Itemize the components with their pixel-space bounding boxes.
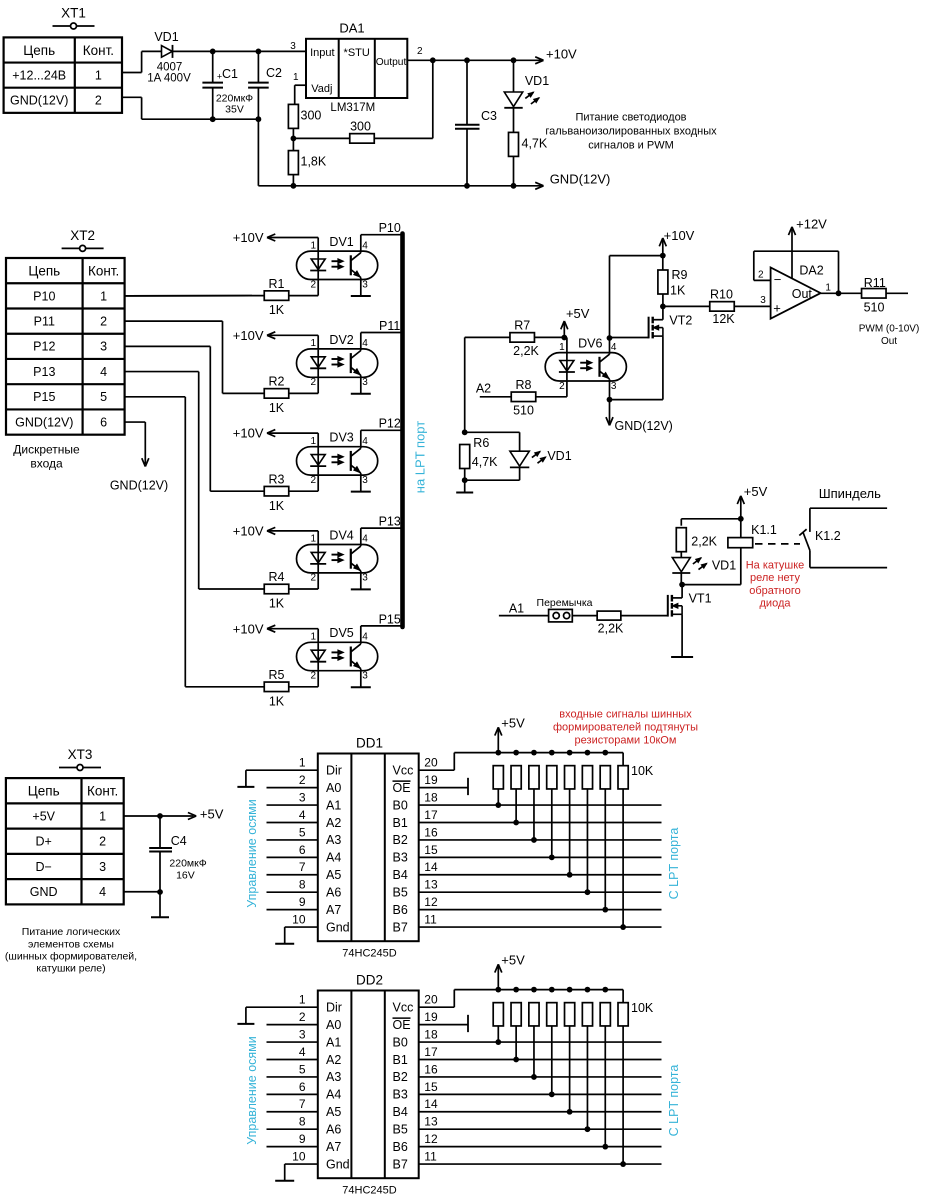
svg-text:*STU: *STU xyxy=(344,47,370,59)
svg-text:элементов схемы: элементов схемы xyxy=(28,938,114,950)
svg-text:17: 17 xyxy=(424,1045,438,1059)
svg-text:3: 3 xyxy=(290,41,296,52)
svg-text:+5V: +5V xyxy=(32,809,55,823)
svg-text:B3: B3 xyxy=(393,851,408,865)
svg-text:R10: R10 xyxy=(710,288,733,302)
svg-text:PWM (0-10V): PWM (0-10V) xyxy=(859,323,920,334)
svg-text:14: 14 xyxy=(424,1097,438,1111)
svg-text:9: 9 xyxy=(299,1132,306,1146)
svg-text:20: 20 xyxy=(424,756,438,770)
svg-text:B6: B6 xyxy=(393,1140,408,1154)
svg-text:OE: OE xyxy=(393,781,411,795)
svg-text:2: 2 xyxy=(758,269,764,280)
svg-text:+10V: +10V xyxy=(233,328,264,343)
svg-text:D−: D− xyxy=(36,860,52,874)
svg-text:2: 2 xyxy=(417,46,423,57)
svg-text:гальваноизолированных входных: гальваноизолированных входных xyxy=(545,126,717,138)
svg-text:A3: A3 xyxy=(326,833,341,847)
svg-text:5: 5 xyxy=(299,825,306,839)
svg-text:1A 400V: 1A 400V xyxy=(147,73,191,85)
svg-text:Дискретные: Дискретные xyxy=(13,443,80,457)
svg-text:A5: A5 xyxy=(326,1105,341,1119)
svg-text:4,7K: 4,7K xyxy=(522,136,548,150)
svg-text:Dir: Dir xyxy=(326,1001,342,1015)
svg-text:2: 2 xyxy=(299,1010,306,1024)
svg-text:2: 2 xyxy=(310,475,316,486)
svg-text:Питание логических: Питание логических xyxy=(22,926,121,938)
svg-text:B5: B5 xyxy=(393,886,408,900)
svg-text:A0: A0 xyxy=(326,1018,341,1032)
svg-text:1: 1 xyxy=(299,756,306,770)
svg-text:6: 6 xyxy=(100,415,107,429)
svg-text:12K: 12K xyxy=(712,312,735,326)
svg-text:P15: P15 xyxy=(33,390,55,404)
svg-text:Out: Out xyxy=(792,287,813,301)
svg-text:16: 16 xyxy=(424,825,438,839)
svg-text:A1: A1 xyxy=(326,1035,341,1049)
svg-text:Конт.: Конт. xyxy=(88,263,119,278)
svg-text:катушки реле): катушки реле) xyxy=(36,963,105,975)
svg-text:20: 20 xyxy=(424,993,438,1007)
svg-text:510: 510 xyxy=(864,301,885,315)
svg-text:74HC245D: 74HC245D xyxy=(342,1185,396,1197)
svg-text:+10V: +10V xyxy=(546,47,577,62)
svg-text:10: 10 xyxy=(292,1149,306,1163)
svg-text:P10: P10 xyxy=(33,289,55,303)
svg-text:15: 15 xyxy=(424,1080,438,1094)
svg-text:B3: B3 xyxy=(393,1088,408,1102)
svg-text:300: 300 xyxy=(301,108,322,122)
svg-text:Управление осями: Управление осями xyxy=(245,1036,259,1145)
svg-text:на LPT порт: на LPT порт xyxy=(413,421,428,493)
svg-text:2,2K: 2,2K xyxy=(513,344,539,358)
svg-text:VD1: VD1 xyxy=(547,449,571,463)
svg-text:GND(12V): GND(12V) xyxy=(15,415,73,429)
svg-text:Out: Out xyxy=(881,336,897,347)
svg-text:3: 3 xyxy=(760,295,766,306)
svg-text:R7: R7 xyxy=(514,318,530,332)
svg-text:+10V: +10V xyxy=(664,228,695,243)
svg-text:3: 3 xyxy=(299,790,306,804)
svg-text:DA1: DA1 xyxy=(339,20,364,35)
svg-text:2: 2 xyxy=(95,94,102,108)
svg-text:входные сигналы шинных: входные сигналы шинных xyxy=(559,708,692,720)
svg-text:1: 1 xyxy=(559,342,565,353)
svg-text:C3: C3 xyxy=(481,109,497,123)
svg-text:VD1: VD1 xyxy=(525,74,549,88)
svg-text:1: 1 xyxy=(299,993,306,1007)
svg-text:4: 4 xyxy=(299,1045,306,1059)
svg-text:4: 4 xyxy=(362,240,368,251)
svg-text:3: 3 xyxy=(299,1027,306,1041)
svg-text:XT1: XT1 xyxy=(61,6,86,21)
svg-text:+5V: +5V xyxy=(501,952,525,967)
svg-text:B7: B7 xyxy=(393,1157,408,1171)
svg-text:A4: A4 xyxy=(326,851,341,865)
svg-text:10K: 10K xyxy=(631,764,654,778)
svg-text:LM317M: LM317M xyxy=(330,102,375,114)
svg-text:Vadj: Vadj xyxy=(311,83,332,95)
svg-text:B2: B2 xyxy=(393,1070,408,1084)
svg-text:2: 2 xyxy=(310,671,316,682)
svg-text:R11: R11 xyxy=(864,276,886,290)
svg-text:1: 1 xyxy=(825,282,831,293)
svg-text:K1.1: K1.1 xyxy=(751,523,777,537)
svg-text:1,8K: 1,8K xyxy=(301,155,327,169)
svg-text:Gnd: Gnd xyxy=(326,920,350,934)
svg-text:1K: 1K xyxy=(670,284,686,298)
svg-text:−: − xyxy=(774,272,782,287)
svg-text:19: 19 xyxy=(424,1010,438,1024)
svg-text:R2: R2 xyxy=(269,375,285,389)
svg-text:220мкФ: 220мкФ xyxy=(169,857,206,869)
svg-text:4: 4 xyxy=(99,885,106,899)
svg-text:4: 4 xyxy=(299,808,306,822)
svg-text:1K: 1K xyxy=(269,597,285,611)
svg-text:Питание светодиодов: Питание светодиодов xyxy=(575,112,686,124)
svg-text:16V: 16V xyxy=(176,870,195,882)
svg-text:5: 5 xyxy=(100,390,107,404)
svg-text:1: 1 xyxy=(310,338,316,349)
svg-text:DV6: DV6 xyxy=(578,337,602,351)
svg-text:1: 1 xyxy=(310,240,316,251)
svg-text:C1: C1 xyxy=(222,67,238,81)
svg-text:+12V: +12V xyxy=(796,217,827,232)
svg-text:4: 4 xyxy=(611,342,617,353)
svg-text:16: 16 xyxy=(424,1062,438,1076)
svg-text:2: 2 xyxy=(100,315,107,329)
svg-text:8: 8 xyxy=(299,878,306,892)
svg-text:Vcc: Vcc xyxy=(393,1001,414,1015)
svg-text:+10V: +10V xyxy=(233,524,264,539)
svg-text:2: 2 xyxy=(310,377,316,388)
svg-text:2: 2 xyxy=(299,773,306,787)
svg-text:Шпиндель: Шпиндель xyxy=(819,486,881,501)
svg-text:P12: P12 xyxy=(379,417,401,431)
svg-text:R5: R5 xyxy=(269,668,285,682)
svg-text:P11: P11 xyxy=(34,315,55,329)
svg-text:300: 300 xyxy=(350,119,371,133)
svg-text:18: 18 xyxy=(424,1027,438,1041)
svg-text:VD1: VD1 xyxy=(712,559,736,573)
svg-text:Конт.: Конт. xyxy=(83,43,114,58)
svg-text:A2: A2 xyxy=(326,1053,341,1067)
svg-text:2,2K: 2,2K xyxy=(598,622,624,636)
svg-text:3: 3 xyxy=(362,475,368,486)
svg-text:4007: 4007 xyxy=(157,61,183,73)
svg-text:входа: входа xyxy=(30,457,63,471)
svg-text:11: 11 xyxy=(424,1149,437,1163)
svg-text:На катушке: На катушке xyxy=(746,560,805,572)
svg-text:+5V: +5V xyxy=(744,484,768,499)
svg-text:Конт.: Конт. xyxy=(87,784,118,799)
svg-text:5: 5 xyxy=(299,1062,306,1076)
svg-text:B1: B1 xyxy=(393,816,408,830)
svg-text:R8: R8 xyxy=(516,378,532,392)
svg-text:Vcc: Vcc xyxy=(393,764,414,778)
svg-text:+5V: +5V xyxy=(200,806,224,821)
svg-text:4: 4 xyxy=(100,365,107,379)
svg-text:7: 7 xyxy=(299,860,306,874)
svg-text:+10V: +10V xyxy=(233,426,264,441)
svg-text:C4: C4 xyxy=(171,834,187,848)
svg-text:DV5: DV5 xyxy=(329,626,353,640)
svg-text:1: 1 xyxy=(293,72,299,83)
svg-text:13: 13 xyxy=(424,878,438,892)
svg-text:2,2K: 2,2K xyxy=(691,535,717,549)
svg-text:B5: B5 xyxy=(393,1123,408,1137)
svg-text:3: 3 xyxy=(99,860,106,874)
svg-text:DA2: DA2 xyxy=(799,264,823,278)
svg-text:35V: 35V xyxy=(225,103,244,115)
svg-text:10: 10 xyxy=(292,912,306,926)
svg-text:DV1: DV1 xyxy=(329,235,353,249)
svg-text:B2: B2 xyxy=(393,833,408,847)
svg-text:B6: B6 xyxy=(393,903,408,917)
svg-text:A7: A7 xyxy=(326,1140,341,1154)
svg-text:10K: 10K xyxy=(631,1001,654,1015)
svg-text:A2: A2 xyxy=(476,382,491,396)
svg-text:диода: диода xyxy=(760,598,792,610)
svg-text:GND(12V): GND(12V) xyxy=(110,479,168,493)
svg-text:A2: A2 xyxy=(326,816,341,830)
svg-text:B4: B4 xyxy=(393,1105,408,1119)
svg-text:12: 12 xyxy=(424,1132,438,1146)
svg-text:1: 1 xyxy=(99,809,106,823)
svg-text:6: 6 xyxy=(299,1080,306,1094)
svg-text:7: 7 xyxy=(299,1097,306,1111)
svg-text:R1: R1 xyxy=(269,277,285,291)
svg-text:Цепь: Цепь xyxy=(28,263,60,278)
svg-text:B0: B0 xyxy=(393,798,408,812)
svg-text:DV4: DV4 xyxy=(329,528,353,542)
svg-text:R3: R3 xyxy=(269,472,285,486)
svg-text:4: 4 xyxy=(362,338,368,349)
svg-text:+5V: +5V xyxy=(566,306,590,321)
svg-text:Output: Output xyxy=(376,57,407,68)
svg-text:C2: C2 xyxy=(266,66,282,80)
svg-text:3: 3 xyxy=(611,381,617,392)
svg-text:A6: A6 xyxy=(326,886,341,900)
svg-text:12: 12 xyxy=(424,895,438,909)
svg-text:17: 17 xyxy=(424,808,438,822)
svg-text:18: 18 xyxy=(424,790,438,804)
svg-text:1: 1 xyxy=(310,534,316,545)
svg-text:3: 3 xyxy=(362,573,368,584)
svg-text:11: 11 xyxy=(424,912,437,926)
svg-text:8: 8 xyxy=(299,1115,306,1129)
svg-text:4: 4 xyxy=(362,534,368,545)
svg-text:A7: A7 xyxy=(326,903,341,917)
svg-text:A4: A4 xyxy=(326,1088,341,1102)
svg-text:2: 2 xyxy=(559,381,565,392)
svg-text:510: 510 xyxy=(513,403,534,417)
svg-text:K1.2: K1.2 xyxy=(815,529,841,543)
svg-text:B4: B4 xyxy=(393,868,408,882)
svg-text:4,7K: 4,7K xyxy=(472,455,498,469)
svg-text:3: 3 xyxy=(100,340,107,354)
svg-text:Цепь: Цепь xyxy=(28,784,60,799)
svg-text:1K: 1K xyxy=(269,303,285,317)
svg-text:+12...24В: +12...24В xyxy=(12,69,66,83)
svg-text:GND(12V): GND(12V) xyxy=(615,419,673,433)
svg-text:1: 1 xyxy=(100,289,107,303)
svg-text:2: 2 xyxy=(310,573,316,584)
svg-text:GND(12V): GND(12V) xyxy=(550,172,611,187)
svg-text:13: 13 xyxy=(424,1115,438,1129)
svg-text:14: 14 xyxy=(424,860,438,874)
svg-text:B0: B0 xyxy=(393,1035,408,1049)
svg-text:VD1: VD1 xyxy=(154,30,178,44)
svg-text:GND: GND xyxy=(30,885,58,899)
svg-text:R6: R6 xyxy=(473,436,489,450)
svg-text:4: 4 xyxy=(362,436,368,447)
svg-text:2: 2 xyxy=(99,835,106,849)
svg-text:6: 6 xyxy=(299,843,306,857)
svg-text:С LPT порта: С LPT порта xyxy=(667,1065,681,1137)
svg-text:Управление осями: Управление осями xyxy=(245,799,259,908)
svg-text:9: 9 xyxy=(299,895,306,909)
svg-text:GND(12V): GND(12V) xyxy=(10,94,68,108)
svg-text:1K: 1K xyxy=(269,499,285,513)
svg-text:R9: R9 xyxy=(672,268,688,282)
svg-text:+10V: +10V xyxy=(233,621,264,636)
svg-text:P13: P13 xyxy=(379,515,401,529)
svg-text:Dir: Dir xyxy=(326,764,342,778)
svg-text:3: 3 xyxy=(362,671,368,682)
svg-text:С LPT порта: С LPT порта xyxy=(667,828,681,900)
svg-text:(шинных формирователей,: (шинных формирователей, xyxy=(5,950,137,962)
svg-text:Перемычка: Перемычка xyxy=(537,597,593,609)
svg-text:Цепь: Цепь xyxy=(23,43,55,58)
svg-text:74HC245D: 74HC245D xyxy=(342,948,396,960)
svg-text:P15: P15 xyxy=(379,612,401,626)
svg-text:R4: R4 xyxy=(269,570,285,584)
svg-text:Input: Input xyxy=(310,47,334,59)
svg-text:DV2: DV2 xyxy=(329,333,353,347)
svg-text:3: 3 xyxy=(362,377,368,388)
svg-text:XT3: XT3 xyxy=(68,747,93,762)
svg-text:19: 19 xyxy=(424,773,438,787)
svg-text:A3: A3 xyxy=(326,1070,341,1084)
svg-text:A5: A5 xyxy=(326,868,341,882)
svg-text:XT2: XT2 xyxy=(70,228,95,243)
svg-text:DD2: DD2 xyxy=(356,972,383,987)
svg-text:1: 1 xyxy=(310,436,316,447)
svg-text:B7: B7 xyxy=(393,920,408,934)
svg-text:формирователей подтянуты: формирователей подтянуты xyxy=(553,722,698,734)
svg-text:A1: A1 xyxy=(509,602,524,616)
svg-text:1K: 1K xyxy=(269,694,285,708)
svg-text:реле нету: реле нету xyxy=(750,572,800,584)
svg-text:VT2: VT2 xyxy=(669,313,692,327)
svg-text:VT1: VT1 xyxy=(689,592,712,606)
svg-text:4: 4 xyxy=(362,632,368,643)
svg-text:Gnd: Gnd xyxy=(326,1157,350,1171)
svg-text:+5V: +5V xyxy=(501,715,525,730)
svg-text:1: 1 xyxy=(95,69,102,83)
svg-text:1K: 1K xyxy=(269,401,285,415)
svg-text:A6: A6 xyxy=(326,1123,341,1137)
svg-text:2: 2 xyxy=(310,279,316,290)
svg-text:+10V: +10V xyxy=(233,230,264,245)
svg-text:1: 1 xyxy=(310,632,316,643)
svg-text:сигналов и PWM: сигналов и PWM xyxy=(588,140,674,152)
svg-text:P12: P12 xyxy=(33,340,55,354)
svg-text:+: + xyxy=(773,301,781,316)
svg-text:P11: P11 xyxy=(379,319,400,333)
svg-text:B1: B1 xyxy=(393,1053,408,1067)
svg-text:P10: P10 xyxy=(379,221,401,235)
svg-text:15: 15 xyxy=(424,843,438,857)
svg-text:D+: D+ xyxy=(36,835,52,849)
svg-text:обратного: обратного xyxy=(749,585,801,597)
svg-text:DV3: DV3 xyxy=(329,431,353,445)
svg-text:A0: A0 xyxy=(326,781,341,795)
svg-text:DD1: DD1 xyxy=(356,735,383,750)
svg-text:резисторами 10кОм: резисторами 10кОм xyxy=(575,735,677,747)
svg-text:3: 3 xyxy=(362,279,368,290)
svg-text:A1: A1 xyxy=(326,798,341,812)
svg-text:OE: OE xyxy=(393,1018,411,1032)
svg-text:P13: P13 xyxy=(33,365,55,379)
